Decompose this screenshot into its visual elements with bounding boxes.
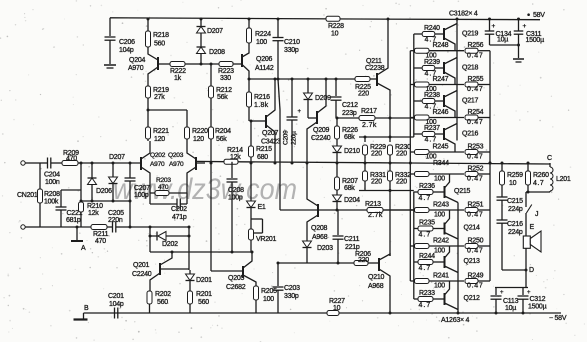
capacitor C210 [277,18,280,21]
transistor Q213 [444,256,446,268]
resistor R332 [389,163,391,172]
resistor R235 [414,228,418,230]
svg-text:100: 100 [256,39,267,46]
svg-text:C113: C113 [503,298,519,305]
svg-text:R208: R208 [44,191,60,198]
svg-text:Q208: Q208 [311,225,327,232]
svg-text:R256: R256 [468,42,484,49]
svg-text:681p: 681p [66,217,81,224]
resistor R226 [336,118,338,126]
svg-text:R224: R224 [255,31,271,38]
svg-text:E: E [530,224,535,231]
wire bottom to feedback box [130,226,189,228]
resistor R245 [410,151,414,153]
svg-text:0.47: 0.47 [467,248,483,255]
svg-text:C211: C211 [344,236,360,243]
svg-text:10µ: 10µ [505,305,516,312]
resistor R203 [150,192,155,194]
capacitor C221 [61,189,81,191]
svg-text:58V: 58V [533,12,545,19]
svg-text:R245: R245 [433,144,449,151]
svg-text:560: 560 [157,299,168,306]
wire zobel bottom [502,269,526,271]
capacitor C209 electrolytic [291,78,294,81]
svg-text:12k: 12k [230,154,241,161]
svg-text:330: 330 [220,75,231,82]
svg-text:C204: C204 [44,172,60,179]
svg-text:C216: C216 [507,221,523,228]
svg-text:D206: D206 [96,188,112,195]
svg-text:C209: C209 [283,130,290,145]
svg-text:D201: D201 [196,277,212,284]
resistor R248 [410,50,414,52]
svg-text:1.8k: 1.8k [254,102,269,109]
svg-text:221p: 221p [345,244,360,251]
svg-text:R239: R239 [424,59,440,66]
resistor R222 [170,62,185,67]
resistor R220 [186,110,188,127]
resistor R221 [147,110,149,127]
wire diff collector link [148,109,187,111]
svg-text:1500µ: 1500µ [528,304,547,311]
svg-text:R252: R252 [468,166,484,173]
svg-text:C: C [547,155,552,162]
resistor R236 [414,191,418,193]
svg-text:1k: 1k [174,75,182,82]
svg-text:100: 100 [434,283,445,290]
svg-text:220µ: 220µ [291,131,298,145]
transistor Q217 [443,95,445,107]
capacitor C113 electrolytic [495,287,497,295]
svg-text:Q207: Q207 [262,130,278,137]
capacitor C215 [501,185,503,197]
svg-text:A1263× 4: A1263× 4 [441,317,470,324]
svg-text:470: 470 [66,156,77,163]
svg-text:100p: 100p [134,192,149,199]
diode D209 [307,78,310,81]
resistor R244 [414,261,418,263]
svg-text:56k: 56k [217,94,228,101]
svg-text:0.47: 0.47 [467,212,483,219]
svg-text:0.47: 0.47 [467,176,483,183]
svg-text:R223: R223 [218,68,234,75]
resistor R233 [414,298,418,300]
wire bottom -58V rail [84,312,562,314]
resistor R230 [389,137,391,142]
svg-text:A1142: A1142 [255,65,274,72]
resistor R216 [248,79,250,92]
capacitor C205 (series) [112,222,114,233]
svg-text:C207: C207 [134,185,150,192]
bottom input wire [40,226,91,228]
svg-text:R204: R204 [215,128,231,135]
svg-text:R237: R237 [424,125,440,132]
diode D208 [200,33,202,47]
diode D203 [303,241,312,248]
wire VAS node y79 [249,78,355,80]
svg-text:1500µ: 1500µ [526,37,545,44]
resistor R240 [414,33,422,35]
svg-text:R218: R218 [153,32,169,39]
svg-text:Q217: Q217 [462,98,478,105]
inductor L201 [549,163,551,167]
resistor R249 [465,279,478,284]
svg-text:R249: R249 [468,273,484,280]
svg-text:Q203: Q203 [168,152,184,159]
wire driver junction bottom [359,190,414,192]
capacitor C204 (series) [40,162,48,164]
svg-text:104p: 104p [109,301,124,308]
wire output to node C [489,162,492,165]
resistor R331 [364,163,366,172]
label +58V [527,13,530,16]
resistor R212 [210,64,212,86]
wire driver junction top [359,136,414,138]
svg-text:R240: R240 [424,25,440,32]
svg-text:A968: A968 [368,283,384,290]
svg-text:4.7: 4.7 [419,265,432,272]
wire base bus top [413,34,415,137]
svg-text:R255: R255 [468,76,484,83]
svg-text:C203: C203 [284,285,300,292]
svg-text:C2240: C2240 [132,271,152,278]
svg-text:R236: R236 [419,183,435,190]
svg-text:330p: 330p [284,293,299,300]
resistor R255 [465,82,478,87]
svg-text:C208: C208 [228,187,244,194]
svg-text:330p: 330p [284,47,299,54]
svg-text:R251: R251 [468,202,484,209]
svg-text:68k: 68k [344,185,355,192]
svg-text:R242: R242 [433,238,449,245]
transistor Q214 [444,223,446,235]
resistor R259 [501,163,503,171]
wire mid output rail [196,160,224,162]
svg-text:R238: R238 [424,92,440,99]
diode D207 string top [200,18,203,21]
svg-text:A968: A968 [312,234,328,241]
resistor R206 [354,261,368,266]
svg-text:470: 470 [95,238,106,245]
svg-text:4.7: 4.7 [533,180,544,187]
transistor Q216 [443,128,445,140]
resistor R219 [146,86,151,98]
wire collector bus bottom [457,203,459,314]
svg-text:R254: R254 [468,109,484,116]
svg-text:C2682: C2682 [226,284,246,291]
svg-text:D207: D207 [109,154,125,161]
svg-text:L201: L201 [556,176,571,183]
svg-text:Q214: Q214 [464,225,480,232]
svg-text:R205: R205 [261,288,277,295]
svg-text:R207: R207 [342,178,358,185]
svg-text:R248: R248 [433,42,449,49]
svg-text:R213: R213 [365,201,381,208]
svg-text:D202: D202 [162,241,178,248]
svg-text:0.47: 0.47 [467,283,483,290]
svg-text:100p: 100p [228,195,243,202]
resistor R208 [39,163,41,189]
svg-text:10: 10 [509,180,517,187]
svg-text:R216: R216 [254,94,270,101]
svg-text:100k: 100k [44,199,59,206]
svg-text:R243: R243 [433,202,449,209]
svg-text:2.7k: 2.7k [368,212,383,219]
wire x150 down [149,227,151,252]
svg-text:D210: D210 [344,148,360,155]
svg-text:471p: 471p [172,214,187,221]
resistor R344 [410,173,414,175]
capacitor C207 [129,163,131,178]
wire base bus [201,63,219,65]
wire psu cap common [490,44,519,46]
svg-text:Q209: Q209 [313,127,329,134]
svg-text:A970: A970 [169,161,184,168]
capacitor C216 [501,219,503,220]
svg-text:D207: D207 [207,28,223,35]
transistor Q212 [444,293,446,305]
resistor R202 [147,291,152,304]
svg-text:R246: R246 [433,109,449,116]
resistor R256 [465,48,478,53]
resistor R211 [91,225,107,230]
wire x189 down from bottom wire [188,227,190,270]
svg-text:68k: 68k [344,134,355,141]
svg-text:560: 560 [154,41,165,48]
svg-text:Q215: Q215 [454,188,470,195]
svg-text:C212: C212 [342,102,358,109]
svg-text:R241: R241 [433,273,449,280]
svg-text:470: 470 [158,184,169,191]
svg-text:4.7: 4.7 [419,302,432,309]
wire C210 node down to Q208 base [277,78,280,81]
svg-text:R210: R210 [87,203,103,210]
svg-text:10µ: 10µ [497,37,508,44]
svg-text:220n: 220n [108,217,123,224]
svg-text:Q212: Q212 [464,295,480,302]
resistor R243 [410,209,414,211]
diode D207 (right zener of pair) [112,163,114,177]
svg-text:+: + [523,23,527,30]
svg-text:A970: A970 [150,161,165,168]
svg-text:100: 100 [434,212,445,219]
svg-text:R222: R222 [170,68,186,75]
svg-text:R220: R220 [192,128,208,135]
ground under C206 [104,64,116,66]
svg-text:0.47: 0.47 [467,154,483,161]
svg-text:100: 100 [263,296,274,303]
svg-text:12k: 12k [88,210,99,217]
svg-text:D209: D209 [315,95,331,102]
svg-text:C215: C215 [507,198,523,205]
svg-text:B: B [84,305,89,312]
svg-text:R233: R233 [419,290,435,297]
resistor R215 [250,121,252,146]
svg-text:C3423: C3423 [261,139,281,146]
svg-text:R201: R201 [196,291,212,298]
svg-text:C202: C202 [171,206,187,213]
speaker [525,213,527,236]
transistor Q219 [443,28,445,40]
svg-text:27k: 27k [154,94,165,101]
resistor R237 [414,133,422,135]
svg-text:C206: C206 [119,39,135,46]
wire Q210 collector up [389,191,391,257]
wire C207 node down [129,201,131,227]
ground psu top [518,45,520,58]
svg-text:Q218: Q218 [462,65,478,72]
diode D204 [336,190,338,195]
svg-text:10: 10 [333,305,341,312]
svg-text:A: A [81,245,86,252]
svg-text:0.47: 0.47 [467,52,483,59]
svg-text:R235: R235 [419,220,435,227]
resistor R254 [465,115,478,120]
svg-text:+: + [492,23,496,30]
svg-text:R219: R219 [153,87,169,94]
svg-text:D203: D203 [317,245,333,252]
capacitor C201 (series in bottom rail) [114,308,116,319]
svg-text:R217: R217 [361,108,377,115]
resistor R238 [414,100,422,102]
resistor R253 [465,150,478,155]
svg-text:4.7: 4.7 [419,231,432,238]
svg-text:4.7: 4.7 [425,137,438,144]
svg-text:R221: R221 [153,128,169,135]
svg-text:D: D [529,267,534,274]
svg-text:120: 120 [154,136,165,143]
resistor R205 [254,286,259,300]
svg-text:C210: C210 [284,39,300,46]
svg-text:VR201: VR201 [256,236,277,243]
zener E1 [250,163,252,201]
svg-text:R212: R212 [216,87,232,94]
capacitor C212 [335,79,337,96]
capacitor C202 [149,193,151,204]
svg-text:− 58V: − 58V [549,315,567,322]
svg-text:R203: R203 [156,177,171,184]
svg-text:Q202: Q202 [150,152,166,159]
svg-text:R260: R260 [533,172,549,179]
svg-text:220: 220 [396,179,407,186]
svg-text:R226: R226 [342,127,358,134]
diode D206 (left zener) [91,163,93,178]
resistor R252 [465,172,478,177]
svg-text:R227: R227 [329,298,345,305]
wire base bus bottom [413,192,415,300]
svg-text:R253: R253 [468,144,484,151]
resistor R225 [355,77,370,82]
svg-text:R259: R259 [507,172,523,179]
svg-text:100: 100 [434,248,445,255]
resistor R242 [410,245,414,247]
wire collector bus top [456,19,458,141]
svg-text:4.7: 4.7 [419,195,432,202]
svg-text:R228: R228 [328,23,344,30]
resistor R207 [336,163,338,177]
svg-text:C205: C205 [108,210,124,217]
capacitor C312 electrolytic [522,287,524,295]
svg-text:R214: R214 [227,147,243,154]
resistor R250 [465,244,478,249]
svg-text:R244: R244 [419,253,435,260]
resistor R214 [224,159,238,164]
svg-text:224p: 224p [508,229,523,236]
wire 100-ohm bus [409,51,411,281]
resistor R201 [188,291,193,304]
svg-text:560: 560 [198,299,209,306]
svg-text:C3182× 4: C3182× 4 [449,11,478,18]
svg-text:Q213: Q213 [464,258,480,265]
resistor R260 [527,163,529,171]
svg-text:56k: 56k [216,136,227,143]
svg-text:R211: R211 [93,231,109,238]
resistor R247 [410,84,414,86]
svg-text:224p: 224p [508,206,523,213]
svg-text:220: 220 [371,151,382,158]
capacitor C208 [231,162,233,178]
svg-text:Q204: Q204 [129,57,145,64]
svg-text:CN201: CN201 [17,192,38,199]
svg-text:Q210: Q210 [368,274,384,281]
capacitor C203 [277,263,279,286]
svg-text:D204: D204 [344,197,360,204]
svg-text:C2240: C2240 [311,135,331,142]
VR201 variable resistor [250,208,252,230]
svg-text:A970: A970 [128,65,144,72]
wire psu cap common bottom [495,287,528,289]
svg-text:Q219: Q219 [462,31,478,38]
svg-text:100n: 100n [45,179,60,186]
ground node A [76,227,78,241]
svg-text:Q201: Q201 [133,262,149,269]
connector J [525,192,527,207]
diode D210 [336,139,338,146]
wire Q208 base row [280,209,414,211]
resistor R246 [410,117,414,119]
svg-text:220: 220 [358,257,369,264]
svg-text:0.47: 0.47 [467,119,483,126]
resistor R204 [209,127,214,139]
svg-text:223p: 223p [342,110,357,117]
svg-text:R202: R202 [155,291,171,298]
svg-text:10: 10 [331,31,339,38]
svg-text:C312: C312 [530,296,546,303]
transistor Q215 [444,186,446,198]
wire node down to R210 [80,163,82,201]
diode D201 [189,270,191,274]
svg-text:220: 220 [358,91,369,98]
resistor R239 [414,67,422,69]
svg-text:R250: R250 [468,238,484,245]
svg-text:100: 100 [434,176,445,183]
svg-text:R215: R215 [256,146,272,153]
resistor R224 [248,18,251,21]
wire D206 bottom bus [81,200,130,202]
resistor R223 [219,62,233,67]
wire emitter 0.47 bus [489,51,491,281]
svg-text:D208: D208 [209,49,225,56]
transistor Q218 [443,62,445,74]
input terminal top [21,161,25,165]
svg-text:Q206: Q206 [256,56,272,63]
resistor R218 [147,18,150,21]
wire top +58V rail [110,18,540,20]
input terminal bottom [21,225,25,229]
resistor R251 [465,208,478,213]
diode D202 [150,235,157,237]
wire R204 to Q205 base [210,162,213,165]
